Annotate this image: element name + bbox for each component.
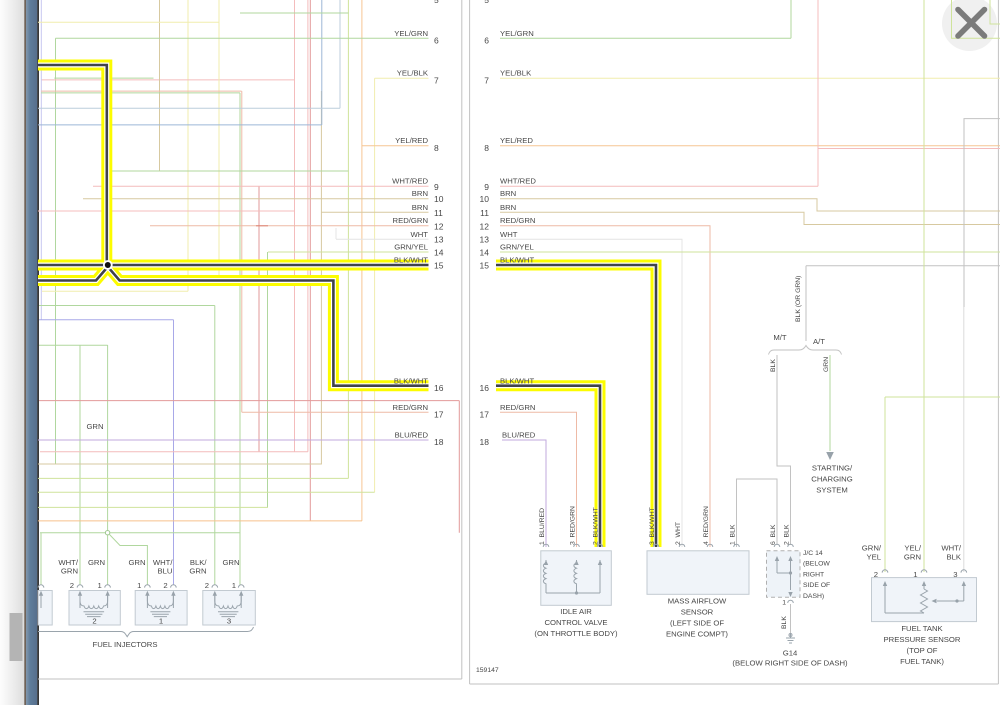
svg-text:1: 1 xyxy=(782,600,786,607)
svg-text:GRN: GRN xyxy=(86,422,103,431)
wire grid: horizontal green h305 xyxy=(39,305,215,307)
J/C 14 dashed box xyxy=(767,551,801,598)
wire salmon h91 xyxy=(41,90,242,92)
svg-text:11: 11 xyxy=(434,208,443,218)
svg-text:BLK/GRN: BLK/GRN xyxy=(189,558,207,576)
svg-text:BLK (OR GRN): BLK (OR GRN) xyxy=(795,276,802,322)
svg-text:BLK: BLK xyxy=(770,359,777,372)
wire YEL/BLK row 7 line xyxy=(375,77,429,79)
highlighted wire row 16 core xyxy=(496,386,600,547)
IACV coil pin1 xyxy=(543,563,546,593)
wire YEL/RED vertical v362 feeding row 8 xyxy=(361,0,363,521)
wire GRN branch diagonal to injector2 pin1 xyxy=(110,535,148,586)
IACV bottom rail xyxy=(546,592,600,594)
wire RED/GRN row 17 to IACV pin 3 xyxy=(500,412,577,547)
wire YEL/GRN vertical to fuel tank pin 1 xyxy=(923,0,925,572)
wire BLU/RED row 18 line xyxy=(38,439,429,441)
top-right connector outline over circle xyxy=(952,0,1000,38)
injector 2 pin arcs xyxy=(145,585,177,588)
scrollbar thumb xyxy=(10,613,23,661)
FTPS internal arrows xyxy=(883,581,966,613)
svg-text:8: 8 xyxy=(434,143,439,153)
svg-text:YEL/GRN: YEL/GRN xyxy=(500,29,534,38)
wire GRN/YEL vertical to fuel tank pin 2 xyxy=(884,397,886,572)
IACV pin arcs xyxy=(543,544,603,547)
svg-text:A/T: A/T xyxy=(813,337,825,346)
svg-text:5: 5 xyxy=(484,0,489,5)
highlighted wire white casing: row 15 xyxy=(38,263,429,268)
svg-text:RED/GRN: RED/GRN xyxy=(393,216,428,225)
wire grid: vertical green v267 xyxy=(267,252,269,507)
svg-text:WHT/RED: WHT/RED xyxy=(500,177,536,186)
svg-text:7: 7 xyxy=(434,76,439,86)
FTPS resistor zigzag xyxy=(921,589,928,613)
MAF pin arcs xyxy=(653,544,739,547)
svg-text:1 BLK: 1 BLK xyxy=(730,524,737,545)
svg-text:(BELOW RIGHT SIDE OF DASH): (BELOW RIGHT SIDE OF DASH) xyxy=(732,659,848,668)
svg-text:GRN: GRN xyxy=(88,558,105,567)
highlighted wire row 16 to IACV pin 2 (yellow) xyxy=(496,386,600,547)
svg-text:BLK/WHT: BLK/WHT xyxy=(394,376,428,385)
highlighted wire white casing: top run xyxy=(38,65,107,265)
svg-text:BLU/RED: BLU/RED xyxy=(502,431,536,440)
J/C 14 internal arrows up xyxy=(775,556,793,573)
wire BRN row 10 line xyxy=(83,198,429,200)
wire YEL/RED row 8 line xyxy=(362,145,429,147)
wire WHT row 13 line xyxy=(336,238,429,240)
wire yel-green full width h507 xyxy=(38,506,268,508)
svg-text:4 RED/GRN: 4 RED/GRN xyxy=(703,506,710,545)
wire YEL/GRN row 6 line xyxy=(56,37,429,39)
right panel border right xyxy=(997,0,999,684)
wire WHT/RED vertical v818 xyxy=(817,0,819,186)
wire grid: horizontal grey-blue h108 xyxy=(38,107,340,109)
wire RED/GRN row 12 to MAF pin 4 xyxy=(500,226,710,547)
svg-text:1: 1 xyxy=(137,581,141,590)
svg-text:3: 3 xyxy=(953,570,957,579)
highlighted wire core: row 15 xyxy=(38,264,429,267)
FTPS wiper junction dot xyxy=(955,599,958,602)
wire grid: horizontal green h490 xyxy=(38,491,375,493)
right panel border left xyxy=(469,0,471,684)
blue side band xyxy=(26,0,37,705)
svg-text:3 RED/GRN: 3 RED/GRN xyxy=(570,506,577,545)
wire grid: vertical grey-blue v340 xyxy=(339,0,341,108)
svg-text:13: 13 xyxy=(480,235,490,245)
injector 0 pin arc xyxy=(38,585,44,588)
FTPS bottom connection xyxy=(885,612,924,614)
injector 1 coil symbol xyxy=(78,591,110,617)
wire grid: vertical pale yellow v222 xyxy=(218,0,220,280)
wire GRN distribution h533 xyxy=(40,532,240,534)
left panel border bottom xyxy=(38,678,462,680)
svg-text:BRN: BRN xyxy=(412,189,428,198)
M/T A/T split brace xyxy=(769,346,842,355)
wire YEL/BLK vertical v374 from row 7 xyxy=(374,78,376,492)
svg-text:YEL/GRN: YEL/GRN xyxy=(394,29,428,38)
highlighted wire row 16 white casing xyxy=(496,386,600,547)
wire grid: vertical green v52 xyxy=(55,38,57,464)
top-right grey box corner xyxy=(964,119,1000,307)
svg-text:BRN: BRN xyxy=(500,189,516,198)
highlighted wire: row 15 full width (yellow) xyxy=(38,260,429,271)
wire WHT/RED upper horizontal h148 xyxy=(818,148,1000,150)
wire WHT vertical v336 feeding row 13 xyxy=(335,228,337,239)
svg-text:M/T: M/T xyxy=(773,333,787,342)
J/C 14 output arrow down xyxy=(790,573,792,590)
wire grid: horizontal green h13 xyxy=(240,12,348,14)
IACV coil pin3 xyxy=(574,563,577,593)
wire grid: horizontal pink h208 xyxy=(38,210,295,212)
svg-text:14: 14 xyxy=(434,248,444,258)
wire YEL/RED row 8 xyxy=(500,145,1000,147)
svg-text:GRN/YEL: GRN/YEL xyxy=(394,243,428,252)
J/C 14 output pin arc xyxy=(788,600,794,603)
junction dot xyxy=(105,262,111,268)
svg-text:14: 14 xyxy=(480,248,490,258)
wire grid: horizontal pale yellow h291 xyxy=(42,290,188,292)
wire red dash on row 12 xyxy=(256,225,268,227)
wire grid: horizontal green h171 xyxy=(110,170,348,172)
ground symbol G14 xyxy=(786,633,795,643)
IACV internal arrows xyxy=(544,560,602,565)
wire grid: vertical steel blue v325 xyxy=(321,0,323,125)
svg-text:2: 2 xyxy=(163,581,167,590)
right panel border bottom xyxy=(470,683,999,685)
wire BLK (OR GRN) vertical xyxy=(805,266,807,341)
wire GRN vertical to injector0 pin xyxy=(40,533,42,585)
svg-text:1: 1 xyxy=(98,581,102,590)
wire grid: vertical red v310 xyxy=(309,0,311,521)
svg-text:15: 15 xyxy=(434,261,444,271)
wire grid: horizontal pink h451 xyxy=(40,451,308,453)
injector 0 arrow xyxy=(40,594,42,608)
svg-text:RED/GRN: RED/GRN xyxy=(393,403,428,412)
svg-text:159147: 159147 xyxy=(476,667,499,674)
svg-text:G14: G14 xyxy=(783,649,798,658)
svg-text:WHT/GRN: WHT/GRN xyxy=(58,558,79,576)
svg-text:8: 8 xyxy=(484,143,489,153)
fuel injectors brace xyxy=(38,627,254,637)
svg-text:2: 2 xyxy=(205,581,209,590)
wire orange full width h521 xyxy=(38,520,362,522)
svg-text:16: 16 xyxy=(480,383,490,393)
svg-text:2 BLK: 2 BLK xyxy=(784,524,791,545)
highlighted wire white casing: lower branch xyxy=(38,267,429,386)
svg-text:2 WHT: 2 WHT xyxy=(675,522,682,545)
wire BLK from MAF pin 1 to J/C pin 6 xyxy=(737,479,778,547)
svg-text:2: 2 xyxy=(874,570,878,579)
injector 2 box xyxy=(135,591,187,626)
svg-text:WHT: WHT xyxy=(500,230,518,239)
wire BRN row 10 with jog xyxy=(500,199,1000,211)
wire grid: vertical yel-green v348 xyxy=(347,0,349,478)
svg-text:3 BLK/WHT: 3 BLK/WHT xyxy=(649,507,656,545)
wire BLU/RED row 18 to IACV pin 1 xyxy=(502,440,546,547)
svg-text:12: 12 xyxy=(434,221,444,231)
svg-text:STARTING/CHARGINGSYSTEM: STARTING/CHARGINGSYSTEM xyxy=(811,464,853,495)
highlighted wire row 15 core xyxy=(496,265,656,547)
wire BLK/GRN vertical to injector3 pin2 xyxy=(214,306,216,586)
injector 1 box xyxy=(69,591,120,626)
wire BLK (OR GRN) horizontal xyxy=(806,265,1000,267)
svg-text:1 BLU/RED: 1 BLU/RED xyxy=(539,508,546,545)
wire grid: horizontal steel blue h125 xyxy=(38,124,322,126)
svg-text:6 BLK: 6 BLK xyxy=(770,524,777,545)
wire WHT/GRN vertical to injector1 pin2 xyxy=(79,345,81,585)
svg-text:17: 17 xyxy=(434,409,444,419)
close button X xyxy=(958,10,985,37)
wire BRN row 11 with jog xyxy=(500,212,1000,224)
svg-text:GRN: GRN xyxy=(823,357,830,372)
injector 3 box xyxy=(203,591,256,626)
wire GRN vertical to splice circle xyxy=(107,345,109,530)
ground symbol circle xyxy=(789,634,792,637)
highlighted wire core: top horizontal and vertical xyxy=(38,65,107,265)
svg-text:BRN: BRN xyxy=(412,203,428,212)
splice circle GRN xyxy=(105,531,109,535)
wire BLK (M/T path) xyxy=(777,355,791,545)
svg-text:11: 11 xyxy=(480,208,489,218)
wire WHT/RED row 9 xyxy=(500,185,818,187)
injector 3 pin arcs xyxy=(212,585,244,588)
svg-text:BLK/WHT: BLK/WHT xyxy=(500,255,534,264)
wire RED/GRN vertical v241 feeding row 17 xyxy=(241,91,243,412)
svg-text:WHT/RED: WHT/RED xyxy=(392,177,428,186)
wire grid: vertical pink v294 xyxy=(294,0,296,452)
MAF box xyxy=(647,551,749,595)
wire grid: vertical blue-violet v41 xyxy=(40,0,42,320)
svg-text:1: 1 xyxy=(913,570,917,579)
IACV rail junction dot xyxy=(575,591,578,594)
wire YEL/GRN row 6 vertical xyxy=(790,0,792,38)
svg-text:6: 6 xyxy=(484,36,489,46)
svg-text:1: 1 xyxy=(232,581,236,590)
injector 3 coil symbol xyxy=(213,591,244,617)
wire BRN row 11 line xyxy=(321,211,429,213)
junction dot white ring xyxy=(103,260,113,270)
svg-text:YEL/BLK: YEL/BLK xyxy=(397,69,429,78)
highlighted wire row 15 to MAF pin 3 (yellow) xyxy=(496,265,656,547)
svg-text:16: 16 xyxy=(434,383,444,393)
svg-text:YEL/RED: YEL/RED xyxy=(500,136,533,145)
svg-text:9: 9 xyxy=(434,182,439,192)
scrollbar dark edge xyxy=(24,0,26,705)
wire GRN (A/T path) xyxy=(829,355,831,451)
svg-text:YEL/RED: YEL/RED xyxy=(395,136,428,145)
wire grid: horizontal pink h80 xyxy=(41,79,295,81)
svg-text:2: 2 xyxy=(70,581,74,590)
svg-text:5: 5 xyxy=(434,0,439,5)
wire YEL/BLK row 7 xyxy=(500,77,1000,79)
svg-text:BLK: BLK xyxy=(781,616,788,629)
injector 2 coil symbol xyxy=(145,591,175,617)
wire GRN vertical to injector3 pin1 xyxy=(239,93,241,585)
svg-text:10: 10 xyxy=(480,194,490,204)
wire RED/GRN row 17 line xyxy=(242,411,429,413)
wire GRN/YEL row 14 xyxy=(500,251,1000,253)
svg-text:FUEL INJECTORS: FUEL INJECTORS xyxy=(93,640,158,649)
svg-text:RED/GRN: RED/GRN xyxy=(500,403,535,412)
wire YEL/GRN row 6 xyxy=(500,37,791,39)
wire WHT/BLU horizontal h320 xyxy=(39,319,174,321)
arrow to starting/charging system xyxy=(826,452,834,460)
scrollbar track xyxy=(0,0,25,705)
svg-text:15: 15 xyxy=(480,261,490,271)
wire BRN vertical v321 feeding row 11 xyxy=(320,91,322,464)
wire WHT/RED row 9 line xyxy=(93,185,429,187)
svg-text:YEL/BLK: YEL/BLK xyxy=(500,69,532,78)
svg-text:YEL/GRN: YEL/GRN xyxy=(904,544,922,562)
svg-text:GRN: GRN xyxy=(222,558,239,567)
svg-text:13: 13 xyxy=(434,235,444,245)
wire grid: horizontal pale yellow h22 xyxy=(38,21,219,23)
J/C 14 junction dot xyxy=(789,571,792,574)
wire GRN/YEL horizontal from right edge xyxy=(885,396,1000,398)
left panel border left (dark) xyxy=(37,0,39,705)
wire GRN splice to injector1 pin1 xyxy=(107,535,109,585)
wire grid: horizontal green h477 xyxy=(38,477,348,479)
left panel area xyxy=(38,0,459,649)
svg-text:BRN: BRN xyxy=(500,203,516,212)
FTPS wiper arrow xyxy=(937,600,964,602)
highlighted wire: lower branch with junction peak (yellow) xyxy=(38,267,429,386)
FTPS box xyxy=(872,578,977,622)
IACV pin2 internal wire xyxy=(599,563,601,593)
wire grid: horizontal green h345 xyxy=(39,344,108,346)
wire grid: vertical tan v159 xyxy=(159,0,161,171)
FTPS pin arcs xyxy=(882,570,966,573)
svg-text:17: 17 xyxy=(480,409,490,419)
svg-text:BLK/WHT: BLK/WHT xyxy=(394,255,428,264)
J/C 14 pin arcs xyxy=(774,544,793,547)
left panel border right xyxy=(461,0,463,679)
highlighted wire row 15 white casing xyxy=(496,265,656,547)
highlighted wire core: lower branch xyxy=(38,267,429,386)
injector 1 pin arcs xyxy=(77,585,110,588)
wire grid: horizontal green h75 xyxy=(54,77,153,79)
top-right connector small corner xyxy=(990,0,1000,24)
svg-text:WHT: WHT xyxy=(410,230,428,239)
svg-text:6: 6 xyxy=(434,36,439,46)
svg-text:GRN/YEL: GRN/YEL xyxy=(500,243,534,252)
svg-text:18: 18 xyxy=(434,437,444,447)
wire BLK to ground xyxy=(790,604,792,636)
wire green h93 xyxy=(41,92,240,94)
wire grid: vertical pale yellow v188 xyxy=(187,0,189,291)
svg-text:1: 1 xyxy=(159,617,163,626)
wire grid: vertical pink v308 xyxy=(307,0,309,452)
svg-text:2: 2 xyxy=(92,617,96,626)
svg-text:9: 9 xyxy=(484,182,489,192)
injector 0 box (clipped at panel edge) xyxy=(38,591,52,626)
svg-text:3: 3 xyxy=(227,617,231,626)
wire grid: vertical red v251 xyxy=(258,186,260,452)
svg-text:7: 7 xyxy=(484,76,489,86)
wire GRN/YEL row 14 line xyxy=(268,251,429,253)
svg-text:12: 12 xyxy=(480,221,490,231)
wire grid: horizontal green h464 xyxy=(38,463,322,465)
wire WHT/BLK vertical to fuel tank pin 3 xyxy=(963,307,965,572)
svg-text:BLK/WHT: BLK/WHT xyxy=(500,376,534,385)
svg-text:GRN: GRN xyxy=(128,558,145,567)
svg-text:RED/GRN: RED/GRN xyxy=(500,216,535,225)
wire grid: horizontal red h400 xyxy=(39,400,459,402)
svg-text:18: 18 xyxy=(480,437,490,447)
wire grid: vertical red v455 xyxy=(458,401,460,533)
svg-text:10: 10 xyxy=(434,194,444,204)
wire RED/GRN row 12 line xyxy=(150,225,429,227)
IACV box xyxy=(541,551,612,606)
svg-text:BLU/RED: BLU/RED xyxy=(395,431,429,440)
wire WHT row 13 to MAF pin 2 xyxy=(500,239,682,547)
svg-text:2 BLK/WHT: 2 BLK/WHT xyxy=(593,507,600,545)
wire WHT/BLU vertical to injector2 pin2 xyxy=(173,320,175,585)
highlighted wire: top horizontal and vertical run (yellow) xyxy=(38,65,107,265)
close button circle xyxy=(942,0,997,51)
